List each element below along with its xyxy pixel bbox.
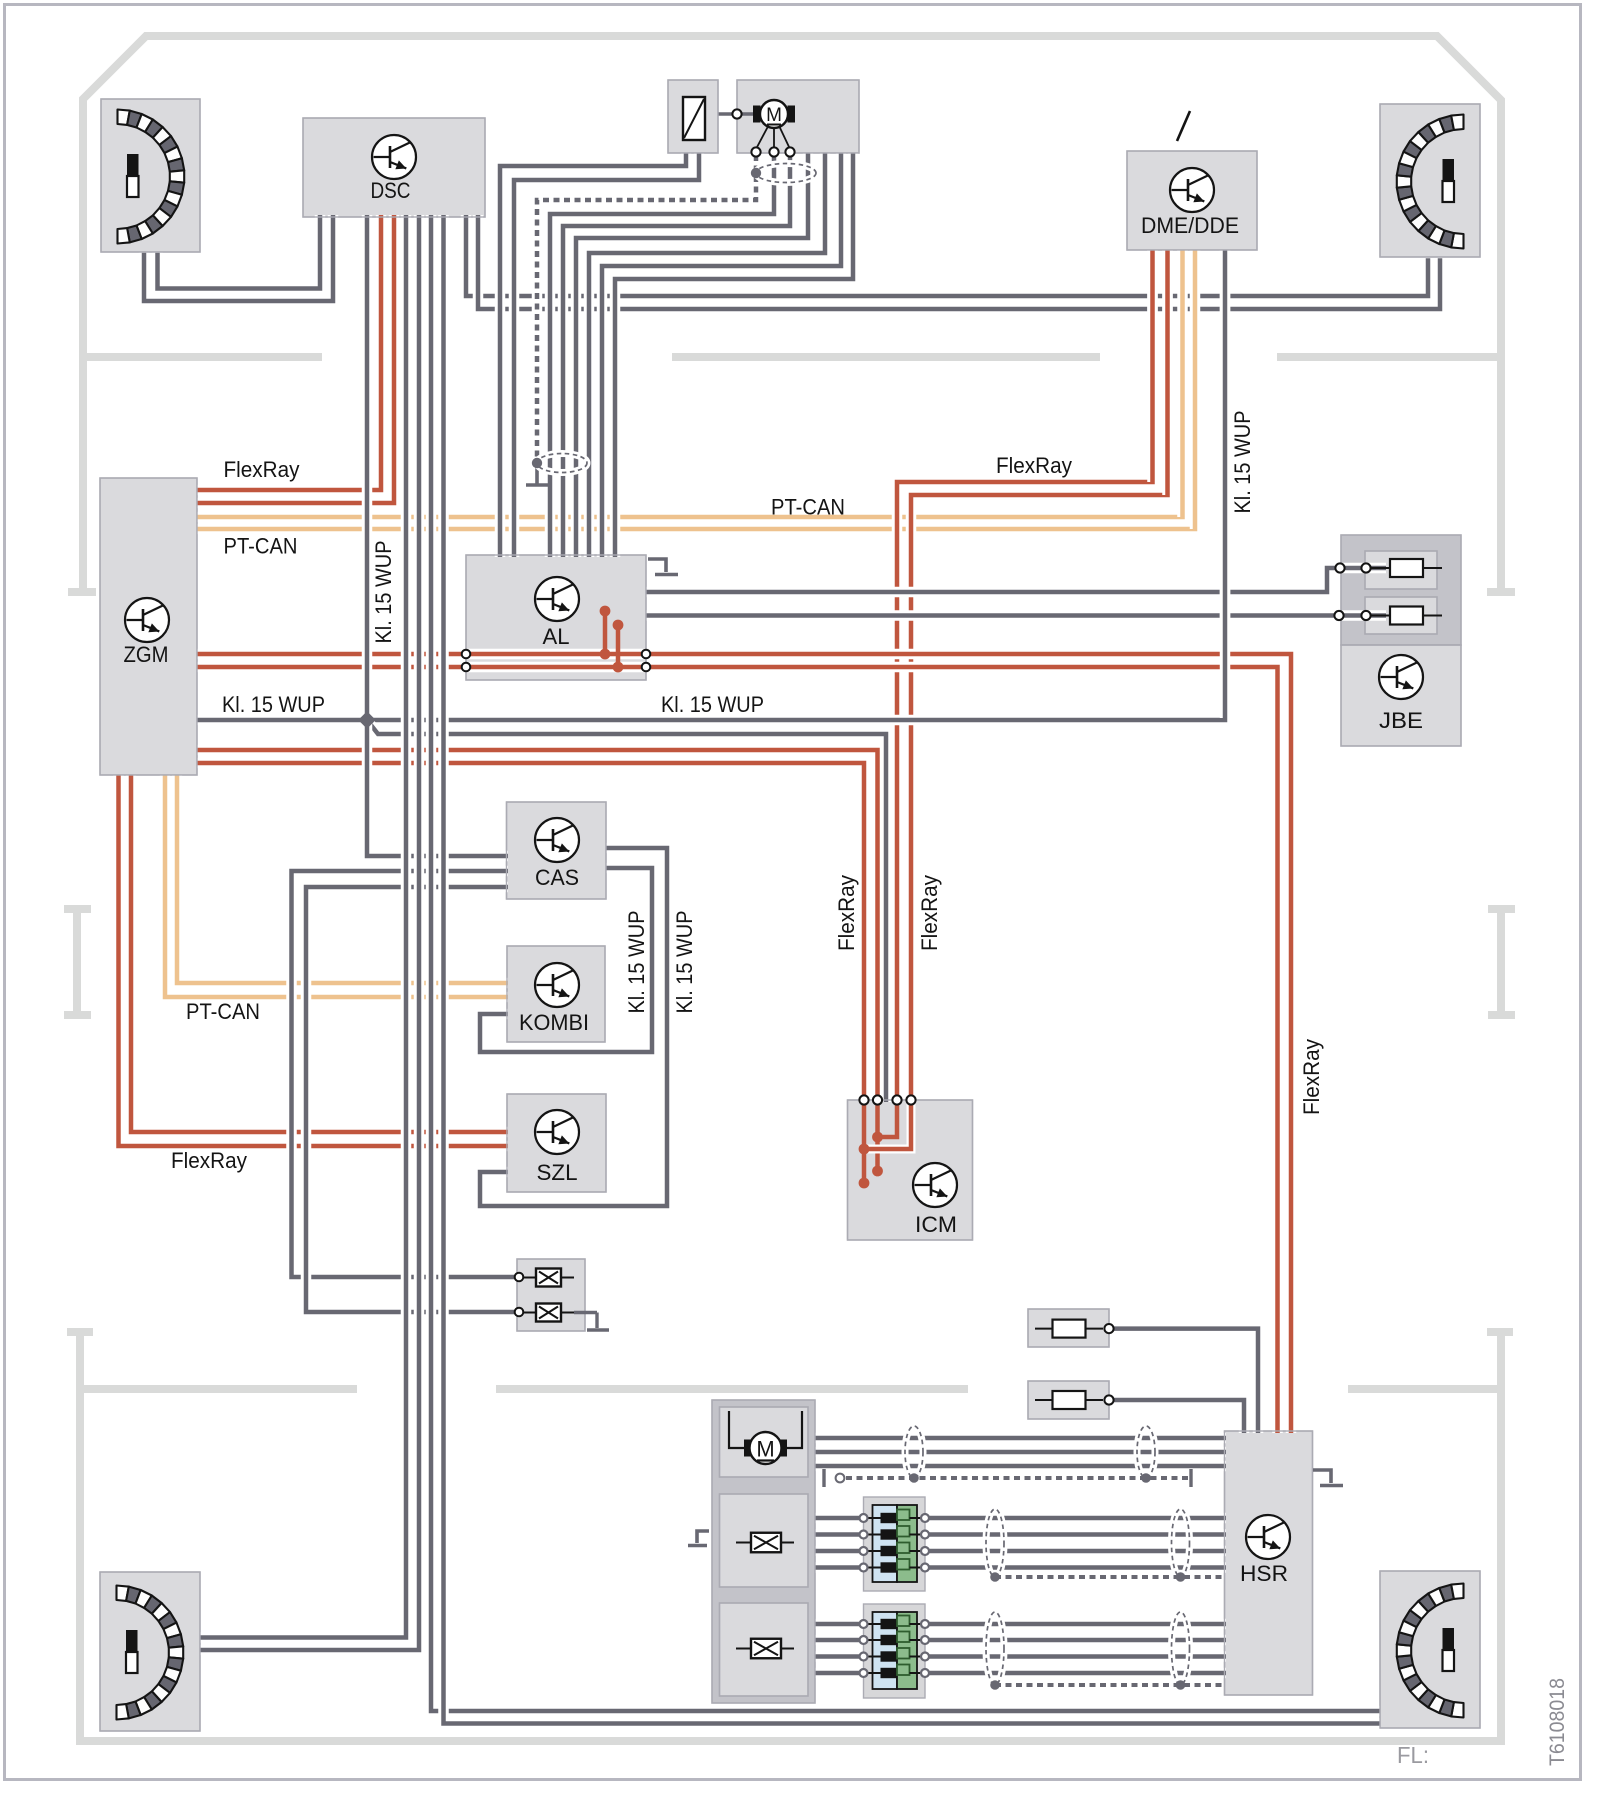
svg-text:FlexRay: FlexRay bbox=[1299, 1038, 1324, 1115]
svg-text:FlexRay: FlexRay bbox=[996, 453, 1073, 478]
svg-text:FlexRay: FlexRay bbox=[224, 457, 301, 482]
svg-text:Kl. 15 WUP: Kl. 15 WUP bbox=[371, 541, 396, 644]
svg-text:CAS: CAS bbox=[535, 865, 579, 890]
svg-text:Kl. 15 WUP: Kl. 15 WUP bbox=[1230, 411, 1255, 514]
svg-text:Kl. 15 WUP: Kl. 15 WUP bbox=[661, 692, 764, 717]
svg-text:ZGM: ZGM bbox=[124, 642, 169, 667]
svg-text:DME/DDE: DME/DDE bbox=[1141, 213, 1239, 238]
svg-text:M: M bbox=[756, 1437, 774, 1462]
svg-text:ICM: ICM bbox=[915, 1212, 957, 1237]
svg-text:DSC: DSC bbox=[371, 178, 411, 203]
svg-text:AL: AL bbox=[543, 624, 570, 649]
svg-text:HSR: HSR bbox=[1240, 1561, 1288, 1586]
svg-text:PT-CAN: PT-CAN bbox=[186, 999, 260, 1024]
svg-text:Kl. 15 WUP: Kl. 15 WUP bbox=[624, 911, 649, 1014]
svg-text:KOMBI: KOMBI bbox=[519, 1010, 589, 1035]
svg-text:FL:: FL: bbox=[1397, 1742, 1429, 1768]
svg-text:T6108018: T6108018 bbox=[1545, 1678, 1569, 1766]
svg-text:Kl. 15 WUP: Kl. 15 WUP bbox=[672, 911, 697, 1014]
svg-text:FlexRay: FlexRay bbox=[171, 1148, 248, 1173]
svg-text:PT-CAN: PT-CAN bbox=[771, 495, 845, 520]
svg-text:Kl. 15 WUP: Kl. 15 WUP bbox=[222, 692, 325, 717]
svg-text:JBE: JBE bbox=[1379, 708, 1423, 733]
svg-text:SZL: SZL bbox=[537, 1160, 578, 1185]
svg-text:PT-CAN: PT-CAN bbox=[224, 534, 298, 559]
svg-text:FlexRay: FlexRay bbox=[834, 874, 859, 951]
svg-text:FlexRay: FlexRay bbox=[917, 874, 942, 951]
svg-text:M: M bbox=[766, 105, 782, 126]
